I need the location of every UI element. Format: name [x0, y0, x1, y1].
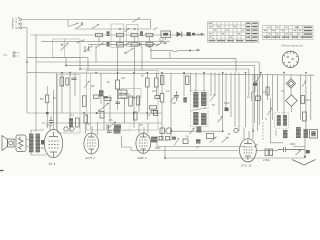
- box top right marks: [311, 131, 316, 136]
- jack box J1: [161, 31, 171, 38]
- IFT box dashed: [191, 91, 209, 127]
- resistor R8: [84, 115, 88, 123]
- switch S20: [84, 81, 90, 88]
- capacitor C9: [196, 139, 201, 144]
- node dot: [46, 112, 49, 114]
- bottom channel wire: [157, 136, 305, 158]
- selector dots: [119, 28, 121, 30]
- socket pin ticks: [283, 51, 298, 67]
- tube V3 grid: [139, 140, 148, 146]
- elco C8: [253, 83, 257, 86]
- tube V4 envelope: [240, 139, 257, 162]
- svg-text:2M: 2M: [91, 85, 94, 88]
- switch S12: [302, 81, 306, 87]
- resistor R12: [94, 95, 100, 98]
- tube V3 envelope: [136, 133, 151, 153]
- shield box mixer inner: [90, 73, 92, 130]
- tube V1 grid: [49, 141, 59, 148]
- switch S2 on antenna bus: [133, 18, 141, 23]
- matrix cap b: [140, 31, 143, 36]
- cap cluster blob: [114, 128, 121, 134]
- dashed line near V4: [262, 122, 264, 140]
- wire vertical x36: [35, 35, 37, 133]
- shield box left small: [58, 75, 81, 133]
- selector switch b: [92, 24, 99, 28]
- antenna terminal A1: [18, 17, 22, 21]
- resistor R19: [150, 106, 157, 109]
- table 1 text marks: [209, 23, 258, 42]
- svg-text:0,5: 0,5: [109, 119, 113, 122]
- pot P2: [108, 122, 116, 128]
- tube V2 cathode: [89, 149, 95, 154]
- node dot5: [96, 112, 98, 114]
- tube V2 leads: [85, 122, 97, 135]
- earth terminal E: [18, 27, 22, 29]
- svg-text:0,1: 0,1: [71, 114, 75, 117]
- elco C8 box: [256, 96, 261, 101]
- svg-text:Gl: Gl: [281, 90, 284, 93]
- comb verticals group 1: [62, 73, 75, 132]
- wire antenna drop: [67, 20, 69, 27]
- wire below transformer: [271, 98, 283, 143]
- svg-text:0,5: 0,5: [263, 91, 267, 94]
- svg-text:50μ: 50μ: [125, 92, 130, 96]
- shield box mixer: [87, 71, 159, 131]
- switch S1 antenna: [68, 23, 79, 27]
- svg-text:T.A.: T.A.: [3, 53, 8, 57]
- transformer winding 1: [277, 115, 281, 126]
- wire TA dashes: [15, 53, 20, 56]
- tube V4 grid: [244, 147, 253, 153]
- tube V4 arrow: [254, 144, 258, 147]
- wire mixer v2: [147, 73, 156, 120]
- ferrite box F1: [111, 24, 124, 48]
- resistor R24: [134, 112, 138, 120]
- tube V3 anode: [140, 133, 147, 137]
- comb verticals group 2: [171, 73, 239, 140]
- dial cord line: [150, 49, 200, 52]
- mains antenna V: [292, 160, 316, 166]
- coil L1: [96, 33, 103, 36]
- transformer wires: [14, 130, 47, 155]
- IFT1 winding primary: [193, 92, 198, 108]
- ift bottom switch: [190, 128, 195, 134]
- speaker coil: [9, 141, 13, 145]
- svg-text:0,1: 0,1: [46, 124, 50, 127]
- wire antenna bus: [22, 19, 151, 21]
- tube V4 anode: [244, 140, 252, 144]
- trimmer T1: [153, 28, 158, 31]
- capacitor C10: [41, 140, 44, 145]
- wire row2b: [88, 43, 160, 45]
- wire mixer v: [117, 73, 119, 110]
- coil L3: [131, 33, 138, 36]
- svg-text:1M: 1M: [152, 90, 155, 93]
- ferrite box F3: [127, 25, 139, 47]
- svg-text:50: 50: [140, 124, 143, 127]
- IFT1 winding secondary: [201, 92, 207, 106]
- cluster box blob: [114, 125, 121, 130]
- cap marks left of box: [107, 125, 109, 130]
- resistor R5: [146, 78, 150, 87]
- svg-text:50: 50: [212, 104, 215, 107]
- antenna terminal A2: [18, 23, 22, 25]
- wire arrow out: [196, 33, 204, 35]
- svg-text:ECH 4: ECH 4: [86, 156, 95, 160]
- ground marks: [83, 46, 90, 51]
- svg-text:pF: pF: [148, 114, 151, 117]
- resistor R11: [183, 139, 188, 144]
- coil L8: [131, 43, 138, 46]
- speaker driver: [8, 139, 15, 147]
- svg-text:W: W: [228, 133, 231, 136]
- switch S8 contact: [98, 110, 100, 112]
- switch S5: [156, 42, 163, 46]
- svg-text:Erde: Erde: [14, 18, 18, 29]
- tube V2 grid: [87, 140, 96, 146]
- bus B1 right: [170, 52, 236, 73]
- dashed pointer: [158, 140, 171, 142]
- svg-text:AL 4: AL 4: [48, 162, 56, 166]
- tube V1 cathode: [50, 152, 57, 157]
- wire y113: [27, 112, 162, 114]
- coil L9: [146, 43, 153, 46]
- cap cluster lines: [107, 131, 112, 133]
- svg-text:50: 50: [141, 75, 144, 78]
- svg-text:5000: 5000: [155, 147, 161, 150]
- bottom cluster boxes: [159, 128, 176, 140]
- tube V3 leads: [139, 123, 148, 133]
- node dot2: [83, 112, 85, 114]
- tube V2 anode: [88, 133, 95, 137]
- selector row wire: [75, 20, 151, 30]
- resistor R10: [303, 112, 307, 121]
- IFT2 winding primary: [193, 112, 198, 125]
- dial mark: [164, 43, 167, 44]
- resistor R20: [151, 110, 157, 113]
- dashed cluster box: [110, 123, 130, 131]
- resistor R4 mixer: [116, 80, 120, 89]
- svg-text:5000: 5000: [224, 102, 230, 105]
- IFT2 winding secondary: [201, 113, 207, 125]
- bus B2: [36, 62, 259, 125]
- matrix marks: [140, 42, 142, 46]
- wire cluster verticals: [101, 73, 139, 130]
- switch S6: [127, 49, 134, 53]
- jack loop wire: [160, 38, 163, 42]
- selector switch a: [76, 24, 83, 28]
- shield box divider: [64, 39, 66, 58]
- capacitor C17: [116, 102, 121, 104]
- field coil zigzag: [19, 137, 24, 149]
- matrix cap c: [107, 42, 110, 47]
- trimmer circle b: [70, 127, 74, 131]
- svg-text:2x50μ: 2x50μ: [263, 158, 271, 162]
- tube V4 leads: [244, 128, 253, 139]
- bus B1 left: [27, 58, 88, 71]
- resistor R23: [301, 96, 305, 104]
- bus B3: [66, 58, 254, 123]
- svg-text:50: 50: [87, 123, 90, 126]
- table 2 frame: [263, 26, 313, 40]
- resistor R21: [186, 76, 189, 85]
- tonabnehmer terminals: [13, 52, 15, 57]
- capacitor C14 blob: [306, 150, 310, 153]
- svg-text:0,1: 0,1: [247, 96, 251, 99]
- svg-text:100: 100: [172, 102, 177, 105]
- switch S15: [210, 137, 217, 143]
- transformer winding 3: [283, 130, 288, 138]
- switch S14: [174, 139, 179, 146]
- wire x47: [47, 73, 56, 130]
- speaker cone: [2, 136, 8, 151]
- shield box left: [53, 39, 81, 58]
- resistor R9: [160, 94, 164, 103]
- tube V4 cathode: [245, 156, 251, 160]
- tube socket circle: [282, 51, 298, 67]
- svg-text:5μ: 5μ: [41, 146, 44, 150]
- table 1 frame: [208, 22, 259, 43]
- resistor R17: [129, 96, 133, 106]
- svg-text:2x0,1: 2x0,1: [305, 99, 312, 102]
- coil L4: [146, 33, 153, 36]
- switch S8 mixer: [100, 103, 109, 110]
- switch S7: [87, 46, 93, 50]
- dial dot: [189, 50, 191, 52]
- wire earth lead: [22, 28, 27, 113]
- resistor R22: [266, 87, 269, 95]
- power transformer dashed box: [275, 113, 289, 128]
- matrix cap a: [107, 31, 110, 36]
- svg-text:Röhrenfassung: Röhrenfassung: [282, 43, 304, 47]
- resistor R7: [83, 96, 87, 107]
- switch S11: [256, 75, 261, 82]
- elco pair C11: [265, 149, 268, 156]
- box small: [151, 137, 158, 143]
- node dot3: [133, 112, 135, 114]
- filter rect b: [118, 95, 127, 98]
- trimmer circle a: [64, 127, 68, 131]
- tube V1 anode: [49, 132, 58, 137]
- jack box inner: [163, 33, 168, 36]
- svg-text:50: 50: [186, 136, 189, 139]
- cluster MA: [100, 112, 104, 119]
- elco pair C12: [269, 149, 272, 156]
- capacitor C4: [103, 97, 108, 99]
- rectifier diamond G2: [286, 95, 298, 107]
- plug P1 pin: [192, 33, 195, 36]
- resistor R9b: [161, 76, 164, 85]
- table 2 text marks: [264, 27, 312, 38]
- left edge mark: [0, 170, 4, 171]
- capacitor C13: [278, 147, 305, 152]
- tube V2 envelope: [84, 133, 99, 154]
- switch S22: [170, 96, 176, 103]
- plug P1: [187, 32, 191, 36]
- coil row 1 wire: [30, 34, 205, 36]
- choke winding right: [296, 127, 301, 138]
- choke winding right 2: [304, 129, 309, 138]
- capacitor C2: [69, 118, 73, 127]
- resistor R2: [76, 118, 80, 127]
- resistor R3: [60, 77, 64, 86]
- node dot4: [147, 112, 149, 114]
- capacitor C5 blob: [225, 108, 229, 112]
- svg-text:Tr: Tr: [265, 118, 267, 121]
- matrix switch b: [125, 42, 130, 46]
- ift bottom components: [170, 130, 223, 132]
- capacitor C7: [183, 97, 187, 103]
- transformer winding 2: [283, 115, 287, 126]
- row verticals down: [96, 46, 170, 80]
- switch S16: [222, 137, 229, 143]
- coil row 2 wire: [42, 40, 171, 42]
- box 50u: [121, 89, 141, 98]
- wire V4 right: [256, 149, 278, 151]
- switch S3 contact: [61, 44, 63, 46]
- capacitor C31: [155, 96, 160, 99]
- resistor R1: [46, 95, 49, 103]
- output transformer primary: [29, 134, 34, 153]
- IFT1 arrow: [191, 107, 207, 110]
- dial switch: [150, 44, 155, 48]
- diode D1: [177, 32, 182, 37]
- capacitor C3: [72, 78, 77, 80]
- socket inner marks: [287, 57, 294, 63]
- box top right: [310, 130, 318, 139]
- capacitor C15 hatched: [99, 90, 104, 97]
- capacitor C32: [154, 111, 158, 116]
- tube V1 envelope: [44, 130, 62, 158]
- diode D1 bar: [181, 32, 183, 37]
- coil L7: [117, 43, 124, 46]
- svg-text:5k: 5k: [107, 80, 110, 84]
- svg-text:0,1: 0,1: [166, 90, 170, 93]
- wire rectifier: [290, 88, 292, 112]
- dial switch circle: [148, 45, 151, 48]
- svg-text:5000: 5000: [290, 143, 296, 146]
- cluster mid: [207, 134, 214, 139]
- resistor R6: [155, 78, 159, 87]
- field coil box: [16, 135, 26, 152]
- comb verticals group 3: [246, 74, 311, 131]
- capacitor C1: [49, 117, 53, 127]
- bus B4: [80, 58, 249, 96]
- switch S10: [218, 117, 223, 123]
- tube V4 getter: [234, 128, 238, 132]
- capacitor C6 pair: [175, 91, 180, 101]
- output transformer secondary: [36, 134, 41, 153]
- arrow down: [304, 156, 307, 159]
- switch S17: [296, 150, 302, 155]
- bottom right L wire: [293, 130, 305, 158]
- svg-text:ECL 11: ECL 11: [242, 164, 252, 168]
- switch S9: [210, 95, 215, 102]
- switch S3: [61, 43, 69, 51]
- ift bottom hatch: [197, 127, 202, 133]
- svg-text:EBF 2: EBF 2: [138, 156, 147, 160]
- filter rect a: [118, 90, 127, 93]
- capacitor C3b: [66, 78, 69, 85]
- capacitor C16: [104, 97, 111, 100]
- wire r9: [161, 73, 163, 140]
- audio wire: [122, 136, 239, 151]
- resistor R18: [136, 96, 140, 105]
- matrix switch a: [125, 28, 130, 32]
- tube V1 heater leads: [49, 125, 51, 131]
- heater wire y123: [47, 122, 162, 124]
- bus B5 main: [27, 73, 314, 76]
- switch S6 contact: [125, 52, 127, 54]
- switch S13: [268, 108, 273, 115]
- rectifier diamond G1: [286, 79, 295, 88]
- coil column links: [99, 37, 166, 43]
- switch S4: [77, 40, 85, 44]
- switch S1 contact: [81, 22, 83, 24]
- antenna terminal labels: [11, 18, 19, 29]
- svg-text:100: 100: [121, 77, 126, 80]
- svg-text:5M: 5M: [40, 98, 43, 101]
- switch S21: [96, 43, 104, 48]
- svg-text:50: 50: [53, 97, 56, 100]
- tube V3 cathode: [141, 149, 147, 153]
- coil L2: [117, 33, 124, 36]
